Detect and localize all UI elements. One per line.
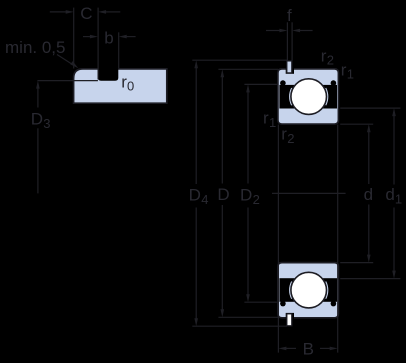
label r2 left lower [281,125,294,146]
bearing axis centerline [272,192,346,194]
dimension d1 [340,108,402,279]
bottom shield recess left [280,301,286,307]
svg-text:1: 1 [347,67,354,82]
svg-text:D: D [240,185,252,204]
svg-text:2: 2 [253,192,260,207]
dimension b [83,28,136,68]
label min. 0,5 with leader [5,38,78,68]
svg-text:0: 0 [127,79,134,94]
dimension D4 [189,60,287,326]
svg-text:2: 2 [327,53,334,68]
svg-text:min. 0,5: min. 0,5 [5,38,65,57]
svg-text:d: d [385,185,394,204]
dimension f [266,6,313,61]
svg-text:B: B [303,340,314,359]
outer+inner ring section body [278,69,339,124]
label r1 left [263,109,276,130]
top snap ring groove cut [286,68,294,74]
bottom ring section body [278,263,339,318]
bottom snap ring groove cut [286,313,294,319]
bottom snap ring (white) [287,314,292,326]
groove bottom diameter line [74,80,98,82]
dimension B [278,125,337,359]
bottom raceway arc right [326,282,328,299]
top half section [278,69,339,124]
label r1 top right [341,61,354,82]
svg-text:3: 3 [43,116,50,131]
dimension C [50,4,121,80]
label r2 top [321,46,334,67]
svg-text:1: 1 [395,191,402,206]
dimension d [340,124,373,262]
shield recess left [280,80,286,86]
svg-text:b: b [104,28,113,47]
gap between rings [279,85,337,109]
label r0 [121,73,134,94]
bottom ball [291,272,327,308]
svg-text:4: 4 [201,192,208,207]
bottom shield recess right [331,301,337,307]
bottom raceway arc left [290,282,292,299]
bottom half section (mirror) [278,263,339,318]
dimension D2 [240,84,277,302]
svg-text:d: d [364,185,373,204]
dimension D [217,69,278,317]
svg-text:2: 2 [287,131,294,146]
svg-text:C: C [80,4,92,23]
svg-text:f: f [287,6,292,25]
ball [291,79,327,115]
svg-text:D: D [217,185,229,204]
dimension D3 [31,81,74,194]
shield recess right [331,80,337,86]
svg-text:D: D [31,109,43,128]
top snap ring [287,61,292,73]
svg-text:1: 1 [269,115,276,130]
ring section block [74,69,167,103]
bottom gap between rings [279,278,337,302]
raceway arc left [290,88,292,105]
svg-text:D: D [189,185,201,204]
snap ring groove cut [98,67,118,81]
raceway arc right [326,88,328,105]
